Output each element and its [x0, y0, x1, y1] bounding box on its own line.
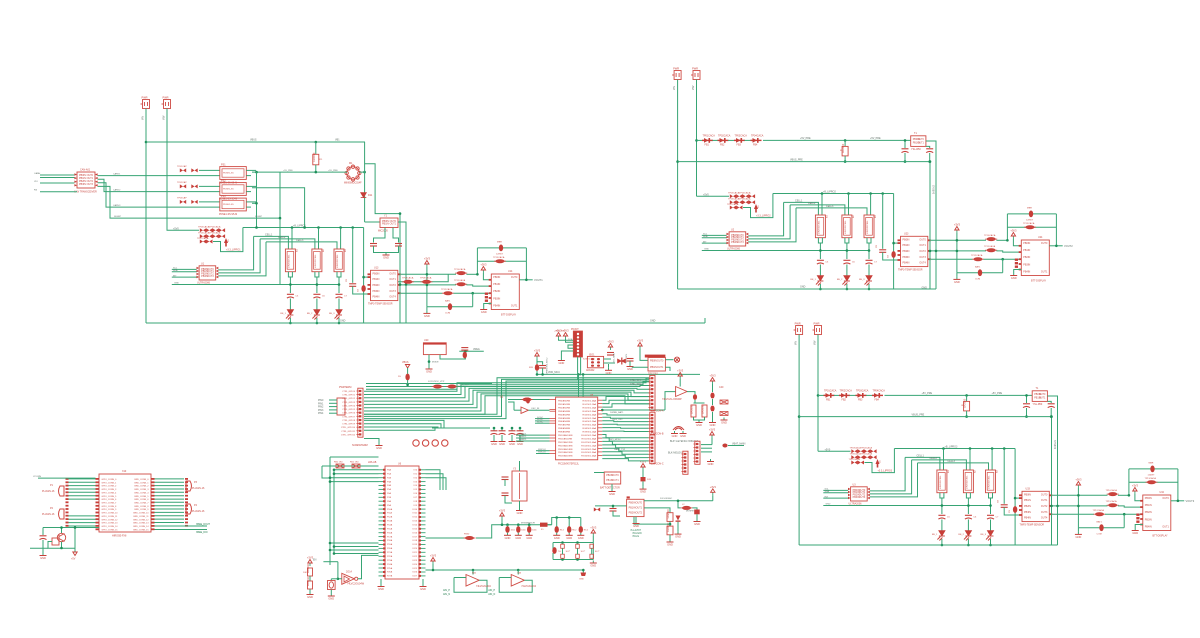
capacitor C40 [505, 526, 509, 533]
wire [893, 194, 895, 290]
svg-text:CTRL_GPIO8: CTRL_GPIO8 [342, 420, 356, 422]
svg-text:GND: GND [509, 442, 515, 446]
wire [246, 185, 256, 187]
svg-text:P11A: P11A [387, 512, 393, 515]
svg-text:+5V0: +5V0 [703, 193, 709, 196]
svg-text:C6: C6 [852, 262, 856, 264]
wire [427, 306, 473, 308]
svg-text:+3V3: +3V3 [607, 340, 614, 344]
wire SCL [172, 268, 197, 270]
svg-text:OUT3: OUT3 [87, 183, 94, 186]
svg-text:U3: U3 [853, 484, 857, 487]
svg-text:CTRL_GPIO11: CTRL_GPIO11 [341, 431, 356, 433]
svg-text:INA: INA [517, 572, 521, 575]
ground [707, 459, 714, 462]
svg-text:VBUS_PRE: VBUS_PRE [912, 413, 925, 416]
junction [399, 212, 402, 215]
wire [561, 351, 573, 358]
resistor RN3C0 [851, 461, 857, 465]
wire [246, 201, 256, 203]
svg-text:TMP3-TEMP SENSOR: TMP3-TEMP SENSOR [1020, 524, 1045, 527]
svg-text:GND: GND [378, 587, 384, 591]
wire [536, 359, 538, 364]
wire [1006, 214, 1008, 240]
wire rail cell2 [912, 460, 967, 470]
wire [594, 472, 604, 474]
capacitor C44 [567, 526, 571, 533]
svg-text:10.2*: 10.2* [595, 551, 600, 553]
connector X2 label bar [645, 355, 666, 358]
svg-text:IO6: IO6 [414, 493, 418, 495]
pin header EXP2 [649, 414, 654, 433]
wire rail cell2 [790, 205, 845, 215]
svg-text:U33: U33 [1026, 488, 1031, 491]
svg-text:C5: C5 [295, 296, 299, 298]
svg-text:PB3IN: PB3IN [493, 297, 500, 300]
junction [493, 427, 496, 430]
wire feedback [499, 578, 532, 593]
diode D33 [856, 393, 867, 398]
wire [819, 243, 821, 259]
svg-text:OUT1: OUT1 [612, 479, 619, 482]
svg-text:PB5/AN5RB: PB5/AN5RB [558, 417, 571, 420]
wire [931, 250, 986, 252]
svg-text:PB0/AN0RB: PB0/AN0RB [558, 400, 571, 403]
svg-text:SCREWTERM: SCREWTERM [352, 444, 368, 447]
ground [499, 439, 506, 442]
ground [480, 307, 487, 310]
speaker LS1 [674, 357, 679, 362]
svg-text:P6A: P6A [387, 492, 392, 495]
svg-text:GND: GND [633, 524, 639, 528]
wire [363, 228, 365, 324]
wire CANL [40, 177, 74, 179]
svg-text:+3V3: +3V3 [534, 349, 541, 353]
wire [1047, 401, 1051, 403]
svg-text:GND: GND [680, 434, 686, 438]
svg-text:P16A: P16A [387, 531, 393, 534]
junction [317, 226, 320, 229]
wire loop mid [1007, 226, 1056, 228]
capacitor C25 [817, 260, 824, 264]
resistor R24 [720, 400, 728, 404]
wires MCU to expansion col3 [602, 435, 648, 461]
LED LED11 [286, 310, 294, 320]
wire [519, 461, 521, 471]
resistor R17 [334, 249, 344, 272]
wire vertical [1051, 417, 1053, 545]
wire [338, 562, 342, 579]
svg-text:BTT-DISPLAY: BTT-DISPLAY [1153, 535, 1169, 538]
junction [60, 526, 63, 529]
IC U32 monitor [851, 487, 868, 501]
pin header EXP1 [649, 377, 654, 409]
svg-text:BRD_CONN_10: BRD_CONN_10 [133, 513, 149, 515]
svg-text:VBUS_PRE: VBUS_PRE [790, 158, 803, 161]
resistor RN2B1 [736, 200, 742, 204]
svg-text:GPIO_CONN_15: GPIO_CONN_15 [102, 529, 119, 531]
svg-text:RG8/SCL0AA: RG8/SCL0AA [583, 427, 597, 430]
svg-text:TP11CACA: TP11CACA [984, 245, 996, 248]
wire [315, 272, 319, 277]
junction [819, 288, 822, 291]
junction [868, 249, 871, 252]
resistor RN3A0 [851, 449, 857, 453]
svg-text:GND: GND [499, 442, 505, 446]
resistor R21 [842, 146, 848, 156]
capacitor C26 [843, 260, 850, 264]
wire [398, 274, 448, 282]
svg-text:PDSE1-S5: PDSE1-S5 [223, 189, 234, 191]
svg-text:OUT0: OUT0 [1041, 493, 1048, 496]
wire [894, 242, 901, 244]
resistor R16 [312, 249, 322, 272]
supply arrow down V+ [73, 552, 77, 556]
wire [352, 228, 354, 283]
svg-text:LIR2032CELL: LIR2032CELL [818, 219, 820, 234]
svg-text:IO15: IO15 [412, 529, 417, 531]
wire loop top [1007, 213, 1056, 215]
svg-text:RG13/SCL1AA: RG13/SCL1AA [581, 444, 596, 447]
resistor R63 [308, 581, 313, 589]
diode D11 [361, 193, 367, 198]
ground [423, 311, 430, 314]
wire with series resistors [322, 465, 379, 467]
junction [333, 545, 336, 548]
capacitor C32 [509, 431, 516, 435]
svg-text:BRD_CONN_14: BRD_CONN_14 [133, 526, 149, 528]
ground [577, 533, 584, 536]
svg-text:IO12: IO12 [412, 517, 417, 519]
svg-text:BATT-DETECTOR: BATT-DETECTOR [600, 487, 620, 490]
wire stub [704, 318, 706, 323]
svg-text:EN: EN [313, 559, 317, 562]
svg-text:RE_2: RE_2 [958, 534, 964, 536]
diode Z11 [224, 238, 228, 247]
svg-text:OUT0: OUT0 [1162, 497, 1169, 500]
wire to rail C [218, 239, 260, 273]
svg-text:B2: B2 [974, 470, 976, 473]
svg-text:CHG_OK2: CHG_OK2 [612, 419, 623, 421]
svg-text:FB30: FB30 [464, 534, 470, 536]
junction [868, 288, 871, 291]
svg-text:R6.2: R6.2 [584, 530, 589, 532]
wire [459, 350, 484, 352]
svg-text:CELL3: CELL3 [948, 460, 956, 463]
ground [420, 584, 427, 587]
wire [330, 549, 379, 551]
svg-text:BRD_CONN_0: BRD_CONN_0 [135, 479, 150, 481]
svg-text:C9: C9 [888, 254, 890, 258]
wire sensor rail [476, 525, 552, 538]
wire [552, 543, 554, 550]
resistor RN3A3 [870, 449, 876, 453]
capacitor C30 [491, 431, 498, 435]
wire [713, 139, 719, 141]
svg-text:SDA: SDA [703, 235, 708, 238]
diode BAT3 [1099, 524, 1103, 531]
wire [941, 539, 943, 545]
svg-text:TP02CACA: TP02CACA [718, 135, 731, 138]
svg-text:OUT3: OUT3 [1041, 511, 1048, 514]
svg-text:LR2010: LR2010 [701, 404, 705, 414]
ground [953, 277, 960, 280]
svg-text:RG3/SCL3AA: RG3/SCL3AA [583, 410, 597, 413]
junction [426, 284, 429, 287]
IC T31 filter [1032, 391, 1047, 402]
junction [511, 427, 514, 430]
wire [694, 402, 705, 404]
svg-text:GND: GND [640, 490, 646, 494]
diode D5 [405, 374, 409, 381]
svg-text:FB1: FB1 [826, 399, 831, 402]
capacitor C26 [710, 393, 714, 399]
junction [315, 141, 318, 144]
pins U33 [1019, 494, 1052, 515]
svg-text:P25A: P25A [387, 567, 393, 570]
svg-text:C8: C8 [346, 278, 348, 282]
wire [845, 238, 849, 243]
svg-text:IO7: IO7 [414, 497, 418, 499]
svg-text:+5V_PRE: +5V_PRE [870, 137, 881, 140]
resistor R22 [691, 405, 696, 417]
supply [308, 560, 312, 567]
junction [1050, 415, 1053, 418]
svg-text:RE_3: RE_3 [329, 313, 335, 315]
svg-text:BTT-DISPLAY: BTT-DISPLAY [501, 314, 517, 317]
svg-text:+3V3: +3V3 [590, 526, 597, 530]
svg-text:R11: R11 [319, 159, 324, 161]
svg-text:C7: C7 [344, 296, 348, 298]
wire SDA [172, 271, 197, 273]
svg-text:LR2010: LR2010 [666, 509, 670, 519]
junction [428, 360, 431, 363]
junction [501, 523, 504, 526]
wire to rail C [748, 205, 790, 239]
svg-text:B2: B2 [853, 215, 855, 218]
wire [507, 525, 509, 527]
wire [712, 399, 714, 405]
wire row3 [98, 183, 220, 207]
junction [935, 250, 938, 253]
svg-text:PB2IN: PB2IN [493, 290, 500, 293]
ferrite FB36 [1107, 492, 1119, 496]
diode D20 [641, 477, 646, 481]
wire [687, 392, 695, 394]
ferrite FB14 [402, 280, 414, 284]
wire OSC [508, 399, 550, 401]
junction [821, 192, 824, 195]
ground [609, 489, 616, 492]
junction [1128, 494, 1131, 497]
wire [504, 480, 506, 487]
wire [199, 201, 220, 203]
wire [848, 194, 850, 216]
svg-text:GND: GND [721, 421, 727, 425]
junction [279, 217, 282, 220]
junction [561, 558, 564, 561]
junction [329, 476, 332, 479]
wire [984, 258, 1022, 260]
svg-text:Z1: Z1 [758, 205, 760, 208]
wire [931, 258, 973, 260]
wire top rail [885, 394, 1033, 396]
wire [595, 505, 627, 507]
ferrite FB28 [972, 257, 984, 261]
svg-text:10.2*: 10.2* [566, 551, 571, 553]
wire VIO [40, 182, 74, 184]
svg-text:U6: U6 [398, 463, 402, 466]
svg-text:U14: U14 [508, 270, 513, 273]
junction [928, 160, 931, 163]
wire [537, 362, 543, 365]
svg-text:RG10/SCL2AA: RG10/SCL2AA [581, 434, 596, 437]
junction [561, 541, 564, 544]
svg-text:SOSC: SOSC [537, 421, 544, 423]
svg-text:FB4: FB4 [753, 144, 758, 147]
wire [536, 450, 550, 452]
crystal Y3 [512, 471, 527, 501]
svg-text:OUT1: OUT1 [390, 223, 397, 226]
svg-text:Y1: Y1 [384, 215, 388, 218]
svg-text:TP05CACATP06CACA: TP05CACATP06CACA [728, 198, 751, 201]
diode Z31 [876, 459, 880, 468]
svg-text:U23: U23 [904, 233, 909, 236]
svg-text:C7: C7 [874, 262, 878, 264]
svg-text:RG6/SCL2AA: RG6/SCL2AA [583, 420, 597, 423]
capacitor C28 [879, 250, 886, 253]
wire [61, 542, 63, 548]
ground [667, 540, 674, 543]
wire [61, 528, 63, 534]
resistor RN3B1 [858, 455, 864, 459]
pins U14 [485, 279, 492, 305]
svg-text:C6: C6 [322, 296, 326, 298]
svg-text:PGED1: PGED1 [519, 433, 527, 435]
svg-text:R61 1K0: R61 1K0 [350, 462, 359, 464]
svg-text:C5: C5 [947, 517, 951, 519]
resistor RN2A1 [736, 194, 742, 198]
resistor R36 [963, 470, 973, 493]
svg-text:OUT0: OUT0 [511, 276, 518, 279]
svg-text:+3V3: +3V3 [954, 223, 961, 227]
svg-text:CELL1: CELL1 [265, 233, 273, 236]
wire [1052, 513, 1094, 515]
svg-text:TP01CACA: TP01CACA [824, 390, 837, 393]
svg-text:COM: COM [445, 313, 450, 315]
svg-text:GND: GND [328, 597, 334, 601]
capacitor C21 [902, 149, 909, 153]
junction [501, 427, 504, 430]
diode RD3A [180, 200, 186, 204]
svg-text:GND: GND [650, 320, 656, 323]
capacitor C27 [710, 406, 714, 412]
wire [701, 451, 712, 453]
U6 pin labels [387, 469, 418, 578]
svg-text:PGED1: PGED1 [519, 436, 527, 438]
svg-text:P14A: P14A [387, 524, 393, 527]
svg-text:IO16: IO16 [412, 532, 417, 534]
svg-text:PWR: PWR [795, 322, 801, 326]
svg-text:GPIO_CONN_0: GPIO_CONN_0 [102, 479, 118, 481]
svg-text:P18A: P18A [387, 539, 393, 542]
wire [338, 318, 340, 323]
MCU left pins [550, 400, 556, 454]
supply arrow VBUS down [405, 365, 409, 369]
wire [517, 525, 519, 527]
wire [454, 292, 492, 294]
svg-text:P15A: P15A [387, 528, 393, 531]
ground [709, 420, 716, 423]
svg-text:BRD_CONN_12: BRD_CONN_12 [133, 519, 149, 521]
wire output [1171, 500, 1184, 502]
junction [929, 250, 932, 253]
wire [505, 496, 512, 504]
svg-text:+3V3: +3V3 [640, 460, 647, 464]
svg-text:BLK-MOLEX: BLK-MOLEX [668, 452, 682, 455]
wire +5V_PRE [252, 171, 347, 173]
wire [868, 243, 870, 259]
svg-text:+3V3: +3V3 [499, 509, 506, 513]
capacitor C16 [313, 294, 320, 298]
junction [1050, 415, 1053, 418]
svg-text:RE_2: RE_2 [307, 313, 313, 315]
wire [868, 265, 870, 276]
wire [711, 438, 713, 445]
svg-text:100n: 100n [532, 530, 536, 532]
svg-text:IO17: IO17 [412, 536, 417, 538]
svg-text:P27A: P27A [387, 575, 393, 578]
svg-text:+3.3_LIPRO2: +3.3_LIPRO2 [756, 214, 771, 217]
svg-text:IO2: IO2 [414, 477, 418, 479]
svg-text:GPIO_CONN_11: GPIO_CONN_11 [102, 516, 119, 518]
svg-text:IO26: IO26 [412, 572, 417, 574]
svg-text:PLUGIN-16: PLUGIN-16 [192, 487, 205, 490]
wire [535, 418, 550, 420]
ground [1132, 528, 1139, 531]
svg-text:OUT2: OUT2 [919, 250, 926, 253]
svg-text:OUT2: OUT2 [1041, 505, 1048, 508]
svg-text:HIROSE-FX8: HIROSE-FX8 [112, 535, 127, 538]
wire [642, 470, 644, 477]
resistor R27 [864, 215, 874, 238]
ground [516, 508, 523, 511]
junction [942, 447, 945, 450]
wire [364, 142, 366, 222]
wire GND rail [823, 505, 991, 507]
wire vertical [399, 214, 401, 323]
svg-text:PDSE1-S5: PDSE1-S5 [223, 204, 234, 206]
svg-text:PB1IN: PB1IN [493, 283, 500, 286]
junction [568, 516, 571, 519]
svg-text:P26A: P26A [387, 571, 393, 574]
transistor Q30 [57, 533, 65, 541]
svg-text:C9: C9 [358, 288, 360, 292]
capacitor C36 [965, 515, 972, 519]
resistor RN2A3 [749, 194, 755, 198]
wire [695, 400, 699, 403]
svg-text:OUT0: OUT0 [1041, 242, 1048, 245]
capacitor C17 [336, 294, 343, 298]
diode D21 [676, 516, 681, 522]
capacitor C31 [1023, 404, 1030, 408]
svg-text:GND: GND [954, 280, 960, 284]
svg-text:LR2010: LR2010 [306, 576, 310, 586]
wire [329, 402, 337, 404]
svg-text:TP05CACATP06CACA: TP05CACATP06CACA [198, 232, 221, 235]
svg-text:+3V3: +3V3 [1075, 478, 1082, 482]
svg-text:V5V: V5V [692, 85, 695, 90]
